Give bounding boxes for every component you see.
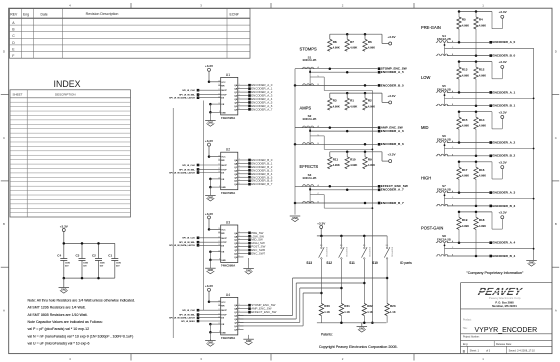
- svg-text:Eng:: Eng:: [463, 343, 468, 346]
- svg-text:GND: GND: [208, 122, 214, 125]
- svg-text:ENCODER_B_5: ENCODER_B_5: [381, 83, 404, 87]
- svg-text:+3.3V: +3.3V: [205, 284, 214, 288]
- wire row A: [447, 41, 489, 43]
- svg-text:4.99K: 4.99K: [368, 105, 375, 109]
- svg-text:SHCP: SHCP: [221, 165, 227, 167]
- net label ENCODER_A_0: [489, 40, 515, 44]
- net label ENCODER_A_7: [378, 188, 404, 192]
- node junction: [340, 287, 343, 290]
- svg-text:4.99K: 4.99K: [479, 124, 486, 128]
- svg-text:R3: R3: [333, 99, 337, 103]
- power +3.3V (AMPS): [387, 94, 396, 104]
- wire: [63, 232, 65, 244]
- net label ENCODER_B_3: [489, 204, 515, 208]
- node junction: [208, 301, 211, 304]
- rotary encoder S8: [436, 234, 451, 256]
- node junction: [444, 144, 446, 146]
- svg-text:16: 16: [218, 155, 220, 157]
- net label ENC_SW6: [248, 248, 265, 252]
- resistor R10: [345, 157, 357, 169]
- svg-text:ENCODER_A_7: ENCODER_A_7: [381, 188, 404, 192]
- node junction: [346, 189, 349, 192]
- svg-text:1.1K: 1.1K: [390, 310, 396, 314]
- wire: [210, 331, 220, 333]
- wire: [238, 166, 248, 168]
- wire: [248, 258, 250, 269]
- svg-text:val P = pF (picoFarads) val *: val P = pF (picoFarads) val * 10 exp-12: [28, 327, 90, 331]
- ground (U3 aux): [243, 269, 254, 275]
- node junction: [458, 241, 461, 244]
- net label AMP_ENC_SW: [378, 126, 403, 130]
- pin letters: [318, 125, 320, 145]
- wire: [238, 108, 248, 110]
- wire: [238, 162, 248, 164]
- net label SPI_UI_IN_DATA_LATCH (U2): [169, 171, 199, 174]
- svg-text:F: F: [12, 54, 14, 58]
- svg-text:S11: S11: [349, 261, 355, 265]
- wire: [63, 278, 65, 287]
- svg-text:GND: GND: [208, 342, 214, 345]
- wire: [381, 34, 383, 43]
- svg-text:100N: 100N: [65, 263, 70, 265]
- svg-text:R10: R10: [350, 157, 356, 161]
- node junction: [209, 259, 212, 262]
- svg-text:SPI_UI_IN_SEL: SPI_UI_IN_SEL: [179, 95, 195, 97]
- wire row SW: [295, 68, 378, 70]
- wire row B: [447, 255, 489, 257]
- wire: [238, 249, 248, 251]
- svg-text:1.1K: 1.1K: [344, 310, 350, 314]
- wire: [381, 152, 383, 161]
- wire: [238, 321, 244, 323]
- node junction: [458, 211, 461, 214]
- node junction: [346, 130, 349, 133]
- svg-text:Product:: Product:: [463, 319, 472, 322]
- wire ID sense: [238, 318, 296, 320]
- wire common bus right column: [533, 48, 535, 260]
- node junction: [364, 84, 367, 87]
- wire: [198, 317, 221, 319]
- svg-text:+3.3V: +3.3V: [317, 221, 326, 225]
- svg-text:S12: S12: [326, 261, 332, 265]
- svg-text:13: 13: [218, 323, 220, 325]
- node junction: [329, 126, 332, 129]
- node junction: [458, 191, 461, 194]
- resistor R14: [474, 117, 486, 129]
- net label ENCODER_A_5: [378, 70, 404, 74]
- resistor R2: [363, 98, 375, 110]
- wire: [209, 228, 221, 230]
- node junction: [475, 54, 478, 57]
- revision table: [10, 9, 251, 59]
- wire: [198, 168, 221, 170]
- svg-text:VCC: VCC: [221, 302, 226, 304]
- title block fields: [463, 319, 538, 354]
- resistor R8: [328, 39, 340, 51]
- power +3.3V (caps): [60, 224, 69, 231]
- svg-text:Meridian, MS 39301: Meridian, MS 39301: [492, 304, 517, 308]
- svg-text:QG: QG: [234, 181, 238, 183]
- wire: [458, 29, 460, 42]
- wire common bus right: [371, 91, 373, 323]
- node junction: [386, 277, 389, 280]
- svg-text:ENCODER_A_5: ENCODER_A_5: [381, 70, 404, 74]
- net label ENCODER_B_3: [248, 168, 273, 172]
- svg-text:AMPS: AMPS: [300, 105, 312, 110]
- svg-text:B: B: [3, 222, 5, 226]
- svg-text:STCP: STCP: [221, 95, 227, 97]
- svg-text:SPI_UI_MISO: SPI_UI_MISO: [181, 321, 195, 323]
- wire row A: [447, 242, 489, 244]
- wire: [210, 259, 220, 261]
- node junction: [329, 67, 332, 70]
- svg-text:S4: S4: [442, 34, 446, 38]
- wire: [238, 315, 244, 317]
- wire row B: [447, 105, 489, 107]
- svg-text:R17: R17: [462, 168, 468, 172]
- pin letters: [452, 190, 454, 206]
- resistor R6: [363, 39, 375, 51]
- node junction: [533, 98, 535, 100]
- power +3.3V (U2): [205, 139, 214, 146]
- IC U4 74HC595: [218, 293, 239, 340]
- svg-text:SHCP: SHCP: [221, 90, 227, 92]
- svg-text:1.1K: 1.1K: [324, 310, 330, 314]
- power +3.3V (POST-GAIN): [499, 211, 508, 219]
- wire: [198, 94, 221, 96]
- wire rail: [330, 151, 382, 153]
- svg-text:SHCP: SHCP: [221, 310, 227, 312]
- wire: [238, 311, 248, 313]
- svg-text:4.99K: 4.99K: [350, 163, 357, 167]
- node junction: [444, 194, 446, 196]
- node junction: [458, 91, 461, 94]
- svg-text:ENCODER_B_0: ENCODER_B_0: [492, 54, 515, 58]
- svg-text:4.99K: 4.99K: [333, 163, 340, 167]
- wire: [238, 159, 248, 161]
- svg-text:R8: R8: [333, 40, 337, 44]
- node junction: [320, 235, 323, 238]
- wire row C: [445, 248, 534, 250]
- resistor R19: [457, 217, 469, 229]
- svg-text:100N: 100N: [116, 263, 121, 265]
- resistor R21: [339, 304, 350, 316]
- resistor R12: [474, 67, 486, 79]
- net label ENCODER_B_4: [489, 254, 515, 258]
- wire rail: [330, 92, 382, 94]
- node junction: [346, 151, 349, 154]
- wire: [238, 246, 248, 248]
- node junction: [209, 178, 212, 181]
- rotary encoder S1: [302, 55, 317, 85]
- svg-text:ENCODER_B_2: ENCODER_B_2: [492, 154, 515, 158]
- wire: [198, 309, 221, 311]
- svg-text:SW-SPST-ID: SW-SPST-ID: [325, 247, 327, 258]
- svg-text:ENCODER_B_3: ENCODER_B_3: [492, 204, 515, 208]
- svg-text:A: A: [3, 309, 5, 313]
- wire row B: [295, 84, 378, 86]
- wire: [198, 97, 221, 99]
- ground (right encoders): [526, 261, 537, 267]
- power +3.3V (U4): [205, 284, 214, 291]
- node junction: [209, 250, 212, 253]
- wire common bus left: [294, 69, 296, 215]
- pin letters: [318, 66, 320, 86]
- net label ENCODER_B_0: [489, 54, 515, 58]
- svg-text:Note Capacitor Values are indi: Note Capacitor Values are indicated as F…: [28, 320, 103, 324]
- resistor R1: [345, 98, 357, 110]
- svg-text:C: C: [3, 136, 5, 140]
- node junction: [329, 185, 332, 188]
- wire rail: [459, 111, 492, 113]
- svg-text:R16: R16: [479, 168, 485, 172]
- svg-text:EFFECTS: EFFECTS: [300, 164, 319, 169]
- svg-text:VCC: VCC: [221, 157, 226, 159]
- wire: [198, 241, 221, 243]
- wire MISO vertical: [172, 108, 174, 338]
- svg-text:STCP: STCP: [221, 242, 227, 244]
- wire: [198, 172, 221, 174]
- svg-text:MR: MR: [221, 85, 225, 87]
- svg-text:Copyright Peavey Electronics C: Copyright Peavey Electronics Corporation…: [319, 345, 398, 349]
- svg-text:SPI_UI_CLK: SPI_UI_CLK: [182, 310, 195, 312]
- svg-text:Release Date:: Release Date:: [496, 343, 512, 346]
- node junction: [81, 242, 84, 245]
- svg-text:74HC595A: 74HC595A: [221, 191, 236, 195]
- svg-text:SPI_UI_CLK: SPI_UI_CLK: [182, 165, 195, 167]
- svg-text:R21: R21: [344, 304, 350, 308]
- svg-text:ENCODER_A_7: ENCODER_A_7: [251, 107, 273, 111]
- node junction: [209, 111, 212, 114]
- svg-text:4.99K: 4.99K: [479, 74, 486, 78]
- svg-text:16: 16: [218, 301, 220, 303]
- node junction: [458, 161, 461, 164]
- wire: [238, 88, 248, 90]
- svg-text:SPI_UI_IN_DATA_LATCH: SPI_UI_IN_DATA_LATCH: [169, 97, 195, 100]
- wire rail ID bottom: [317, 322, 387, 324]
- wire: [209, 301, 221, 303]
- rotary encoder S7: [436, 184, 451, 206]
- node junction: [372, 149, 374, 151]
- wire: [491, 212, 493, 229]
- wire: [64, 277, 115, 279]
- svg-text:ENC2A-2B: ENC2A-2B: [303, 176, 317, 180]
- svg-text:ENCODER_A_1: ENCODER_A_1: [492, 90, 515, 94]
- net label ENCODER_B_0: [248, 158, 273, 162]
- wire: [208, 291, 210, 302]
- svg-text:SPI_UI_IN_SEL: SPI_UI_IN_SEL: [179, 169, 195, 171]
- svg-text:R9: R9: [368, 157, 372, 161]
- wire: [458, 162, 460, 168]
- svg-text:R4: R4: [479, 18, 483, 22]
- svg-text:4.99K: 4.99K: [368, 163, 375, 167]
- svg-text:+3.3V: +3.3V: [499, 211, 508, 215]
- net label ENCODER_A_3: [248, 94, 273, 98]
- net label ENCODER_A_3: [489, 191, 515, 195]
- svg-text:Eng: Eng: [23, 12, 29, 16]
- svg-text:All SMT 0805 Resistors are 1/1: All SMT 0805 Resistors are 1/10 Watt.: [28, 313, 88, 317]
- wire: [491, 162, 493, 179]
- svg-text:4.99K: 4.99K: [462, 124, 469, 128]
- svg-text:Revision Description: Revision Description: [86, 12, 119, 16]
- svg-text:4.99K: 4.99K: [333, 105, 340, 109]
- svg-text:GND: GND: [208, 269, 214, 272]
- net label MID_SW: [248, 238, 263, 242]
- rotary encoder S6: [436, 134, 451, 156]
- svg-text:SPI_UI_CLK: SPI_UI_CLK: [182, 90, 195, 92]
- svg-text:HIGH: HIGH: [421, 175, 431, 180]
- node junction: [475, 205, 478, 208]
- svg-text:U3: U3: [226, 220, 230, 224]
- net label PRE_SW: [248, 231, 263, 235]
- wire rail: [459, 11, 492, 13]
- svg-text:R6: R6: [368, 40, 372, 44]
- wire row SW: [295, 185, 378, 187]
- resistor R13: [457, 67, 469, 79]
- svg-text:GND: GND: [246, 340, 252, 343]
- svg-text:Saved: 2-4-2008_17:10: Saved: 2-4-2008_17:10: [509, 349, 536, 352]
- node junction: [63, 242, 66, 245]
- node junction: [346, 33, 349, 36]
- power +3.3V (HIGH): [499, 160, 508, 168]
- wire: [198, 314, 221, 316]
- net label ENCODER_A_6: [378, 129, 404, 133]
- svg-text:ENC2A-2B: ENC2A-2B: [303, 58, 317, 62]
- node junction: [309, 71, 311, 73]
- wire row A: [309, 188, 311, 191]
- wire: [475, 162, 477, 168]
- svg-text:74HC595A: 74HC595A: [221, 264, 236, 268]
- wire rail ID: [317, 235, 387, 237]
- wire: [238, 318, 244, 320]
- wire: [238, 325, 244, 327]
- wire: [210, 251, 220, 253]
- wire SPI bus vertical: [203, 101, 205, 311]
- wire: [198, 164, 221, 166]
- svg-text:D: D: [555, 50, 557, 54]
- net label ENCODER_B_5: [248, 175, 273, 179]
- net label SPI_UI_IN_SEL (U4): [179, 313, 199, 316]
- svg-text:EFFECT_ENC_SW: EFFECT_ENC_SW: [251, 310, 276, 314]
- svg-text:+3.3V: +3.3V: [60, 224, 69, 228]
- wire: [364, 34, 366, 39]
- svg-text:ID parts: ID parts: [400, 261, 412, 265]
- svg-text:SPI_UI_CLK: SPI_UI_CLK: [182, 238, 195, 240]
- wire: [364, 152, 366, 157]
- net label ENCODER_B_2: [248, 165, 273, 169]
- net label ENCODER_A_1: [489, 90, 515, 94]
- svg-text:POST-GAIN: POST-GAIN: [421, 225, 443, 230]
- net label ENCODER_B_7: [378, 201, 404, 205]
- node junction: [346, 71, 349, 74]
- wire row A: [447, 91, 489, 93]
- node junction: [97, 242, 100, 245]
- Peavey logo: [477, 286, 534, 308]
- net label EFFECT_ENC_SW: [378, 184, 408, 188]
- net label SPI_UI_CLK (U2): [182, 164, 199, 167]
- svg-text:Patents:: Patents:: [321, 332, 333, 336]
- wire rail: [459, 61, 492, 63]
- wire row C: [445, 47, 534, 49]
- svg-text:ENCODER_B_7: ENCODER_B_7: [251, 182, 273, 186]
- wire: [210, 103, 220, 105]
- wire: [210, 111, 220, 113]
- svg-text:16: 16: [218, 228, 220, 230]
- net label POST_SW: [248, 245, 265, 249]
- svg-text:of 3: of 3: [486, 349, 491, 352]
- svg-text:ENCODER_B_4: ENCODER_B_4: [492, 254, 515, 258]
- svg-text:GND: GND: [221, 112, 226, 114]
- net label ENC_SW7: [248, 252, 265, 256]
- svg-text:100N: 100N: [83, 263, 88, 265]
- power +3.3V (LOW): [499, 60, 508, 68]
- wire: [320, 229, 322, 236]
- svg-text:16: 16: [218, 81, 220, 83]
- svg-text:ENCODER_B_6: ENCODER_B_6: [381, 142, 404, 146]
- wire: [238, 328, 244, 330]
- svg-text:4.99K: 4.99K: [462, 224, 469, 228]
- svg-text:+3.3V: +3.3V: [499, 110, 508, 114]
- capacitor C1: [108, 253, 121, 267]
- net label ENCODER_A_7: [248, 107, 273, 111]
- net label ENCODER_A_0: [248, 83, 273, 87]
- node junction: [209, 331, 212, 334]
- wire: [475, 62, 477, 68]
- svg-text:STCP: STCP: [221, 169, 227, 171]
- index table: [10, 79, 131, 217]
- wire: [340, 316, 342, 323]
- svg-text:C1: C1: [108, 253, 112, 257]
- svg-text:4.99K: 4.99K: [350, 46, 357, 50]
- wire: [329, 152, 331, 157]
- wire: [238, 232, 248, 234]
- wire: [81, 243, 83, 258]
- wire: [491, 12, 493, 29]
- svg-text:P. O. Box 2898: P. O. Box 2898: [495, 301, 514, 305]
- IC U3 74HC595: [218, 220, 239, 267]
- resistor R9: [363, 157, 375, 169]
- wire rail: [459, 211, 492, 213]
- resistor R22: [362, 304, 373, 316]
- svg-text:11: 11: [218, 309, 220, 311]
- wire: [238, 253, 248, 255]
- wire: [209, 339, 211, 340]
- title block: [461, 283, 553, 354]
- svg-text:1: 1: [239, 304, 240, 306]
- svg-text:GND: GND: [61, 289, 67, 292]
- wire row B: [295, 143, 378, 145]
- rotary encoder S4: [436, 34, 451, 56]
- net label STOMP_ENC_SW: [378, 67, 407, 71]
- net label SPI_UI_IN_SEL (U3): [179, 241, 199, 244]
- wire row A: [309, 129, 311, 132]
- wire: [238, 242, 248, 244]
- capacitor C2: [92, 253, 105, 267]
- svg-text:+3.3V: +3.3V: [387, 35, 396, 39]
- wire row A: [309, 70, 311, 73]
- svg-text:D: D: [3, 50, 5, 54]
- net label ENCODER_B_5: [378, 83, 404, 87]
- svg-text:4.99K: 4.99K: [479, 174, 486, 178]
- wire: [329, 34, 331, 39]
- wire: [238, 84, 248, 86]
- wire: [475, 112, 477, 118]
- svg-text:val N = nF (nanoFarads) val *: val N = nF (nanoFarads) val * 10 exp-9 (…: [28, 334, 134, 338]
- net label SPI_UI_IN_DATA_LATCH (U4): [169, 316, 199, 319]
- svg-text:R7: R7: [350, 40, 354, 44]
- capacitor C4: [57, 253, 70, 267]
- svg-text:+3.3V: +3.3V: [205, 64, 214, 68]
